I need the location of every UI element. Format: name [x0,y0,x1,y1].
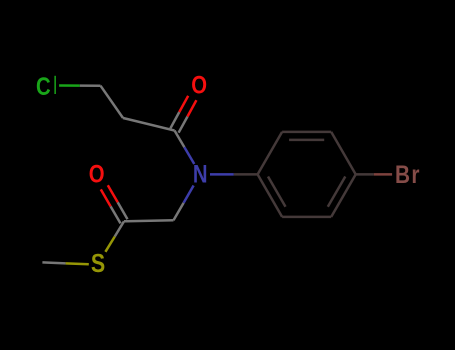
double bond C1=O1 line b (C half) [179,117,188,133]
svg-text:Br: Br [395,160,421,188]
bond C-Br (Br half) [374,173,392,176]
svg-text:N: N [193,160,208,188]
double bond C1=O1 line a (C half) [170,112,179,128]
benzene inner double-bond line TL-TR [289,139,324,142]
double bond C5=O2 line a (C half) [111,206,121,223]
bond C1-N (N half) [184,147,194,164]
double bond C1=O1 line a (O half) [179,96,188,112]
bond S-CH3 (S half) [66,262,89,265]
bond C2-C1 chain [123,118,175,131]
bond N-phenyl (N half) [210,173,234,176]
benzene ring edge L-TL [258,132,283,175]
bond C-Br (ring half) [356,173,374,176]
bond N-phenyl (ring half) [234,173,258,176]
svg-text:C: C [36,72,51,100]
double bond C5=O2 line b (O half) [108,185,118,202]
svg-text:O: O [191,71,207,99]
double bond C5=O2 line b (C half) [118,202,128,219]
bond C5-S (S half) [105,237,114,252]
double bond C1=O1 line b (O half) [188,100,197,116]
bond N-CH2 (N half) [184,186,194,203]
benzene ring edge TL-TR [282,131,331,134]
bond C3-C2 chain [101,86,124,118]
bond C5-S (C half) [115,221,124,236]
bond Cl-C3 (C half) [80,84,101,87]
bond CH2-C5 chain [124,220,174,221]
svg-text:O: O [89,160,105,188]
bond Cl-C3 (Cl half) [59,84,80,87]
benzene inner double-bond line BL-L [268,177,286,207]
benzene ring edge TR-R [331,132,356,175]
double bond C5=O2 line a (O half) [101,189,111,206]
bond S-CH3 (C half) [42,262,65,263]
benzene ring edge BR-BL [282,216,331,219]
benzene ring edge R-BR [331,174,356,217]
bond N-CH2 (C half) [174,203,184,220]
benzene inner double-bond line R-BR [328,177,346,207]
atom label Cl - thin letter l [54,76,56,94]
svg-text:S: S [91,249,105,279]
bond C1-N (C half) [175,131,185,148]
benzene ring edge BL-L [258,174,283,217]
